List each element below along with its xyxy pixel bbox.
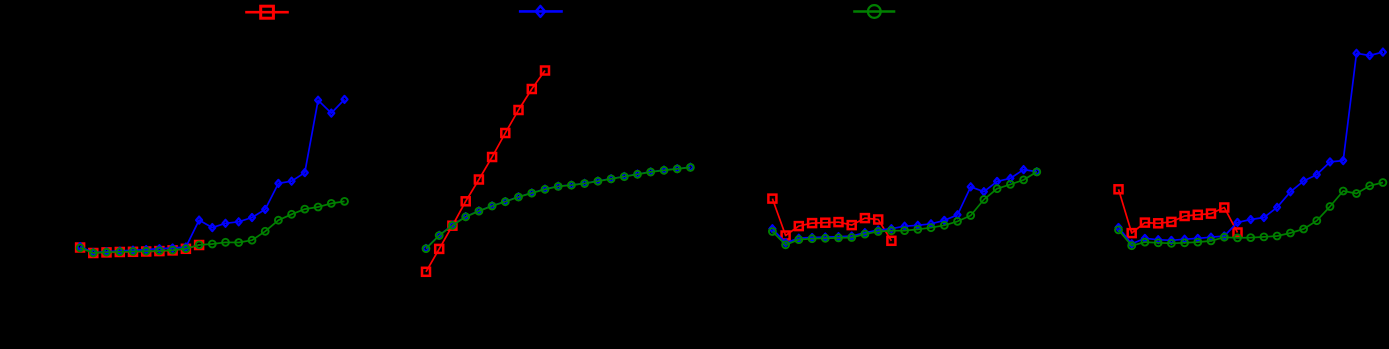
subplot 3: red squares curve — [768, 195, 895, 245]
legend: blue diamonds series — [519, 6, 563, 17]
subplot 2: green circles curve — [423, 164, 694, 252]
subplot 1: blue diamonds curve — [77, 96, 347, 256]
subplot 4: green circles curve — [1115, 179, 1386, 249]
subplot 3: green circles curve — [769, 168, 1040, 248]
subplot 3: blue diamonds curve — [769, 166, 1039, 246]
legend: red squares series — [245, 6, 289, 18]
subplot 2: blue diamonds curve — [423, 164, 693, 252]
subplot 2: red squares curve — [422, 67, 549, 276]
subplot 4: blue diamonds curve — [1116, 49, 1386, 248]
subplot 1: green circles curve — [77, 198, 348, 256]
legend: green circles series — [853, 5, 895, 18]
subplot 4: red squares curve — [1115, 185, 1242, 237]
subplot 1: red squares curve — [76, 241, 203, 257]
